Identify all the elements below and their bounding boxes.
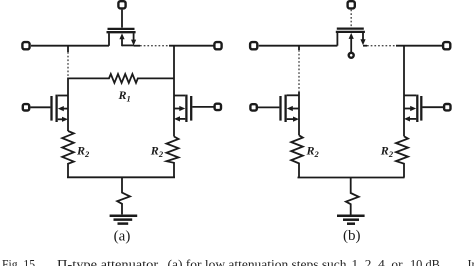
resistor R2 (right, a) (167, 137, 179, 178)
wire: gate lead of M1b (350, 10, 352, 28)
transistor M2b (left shunt NMOS) (281, 95, 300, 122)
terminal: gate port of M2b (250, 104, 256, 110)
wire: right branch vertical (a) (173, 46, 175, 137)
transistor M3a (right shunt NMOS) (174, 95, 191, 122)
wire: right branch vertical (b) (403, 46, 405, 137)
wire: gate lead of M2a (30, 106, 50, 108)
wire: gate lead of M1a (121, 10, 123, 28)
transistor M1a (series NMOS, horizontal) (107, 29, 137, 46)
svg-text:Fig. 15.: Fig. 15. (2, 258, 38, 266)
resistor R2 (left, b) (291, 135, 303, 177)
ground (b) (337, 216, 365, 224)
terminal: gate port of M2a (23, 104, 29, 110)
terminal: output port (a) (214, 42, 221, 49)
wire: left branch vertical (b) (298, 46, 300, 136)
terminal: top gate port of M1b (348, 1, 355, 8)
ground (a) (110, 216, 138, 224)
terminal: body port of M1b (349, 53, 354, 58)
wire: ground stub with squiggle (a) (117, 177, 130, 214)
transistor M1b (series NMOS, horizontal) (336, 29, 366, 53)
svg-text:(a): (a) (114, 229, 131, 245)
wire: ground stub with squiggle (b) (346, 178, 359, 215)
wire: gate lead of M3a (192, 106, 214, 108)
resistor R2 (left, a) (62, 131, 74, 177)
wire: gate lead of M2b (258, 106, 280, 108)
svg-text:(a) for low attenuation steps: (a) for low attenuation steps such (168, 258, 347, 266)
wire: top rail right (b) (363, 45, 443, 47)
svg-text:In: In (468, 258, 474, 266)
svg-text:1, 2, 4, or: 1, 2, 4, or (352, 258, 403, 266)
terminal: gate port of M3a (215, 104, 221, 110)
transistor M3b (right shunt NMOS) (404, 95, 421, 122)
wire: top rail right (a) (134, 45, 214, 47)
svg-text:10 dB.: 10 dB. (410, 258, 443, 266)
terminal: gate port of M3b (444, 104, 450, 110)
transistor M2a (left shunt NMOS) (52, 95, 69, 122)
terminal: top gate port of M1a (118, 1, 125, 8)
wire: top rail left (a) (31, 45, 109, 47)
terminal: input port (b) (250, 42, 257, 49)
wire: bottom rail (a) (67, 176, 175, 178)
svg-text:Π-type attenuator.: Π-type attenuator. (57, 258, 161, 266)
wire: top rail left (b) (259, 45, 338, 47)
terminal: output port (b) (443, 42, 450, 49)
resistor R2 (right, b) (396, 136, 408, 177)
svg-text:(b): (b) (343, 228, 361, 244)
terminal: input port (a) (22, 42, 29, 49)
wire: left branch vertical (a) (67, 46, 69, 131)
resistor R1 (68, 74, 174, 83)
wire: bottom rail (b) (298, 177, 405, 179)
wire: gate lead of M3b (422, 106, 444, 108)
caption (clipped at bottom edge) (2, 258, 474, 266)
